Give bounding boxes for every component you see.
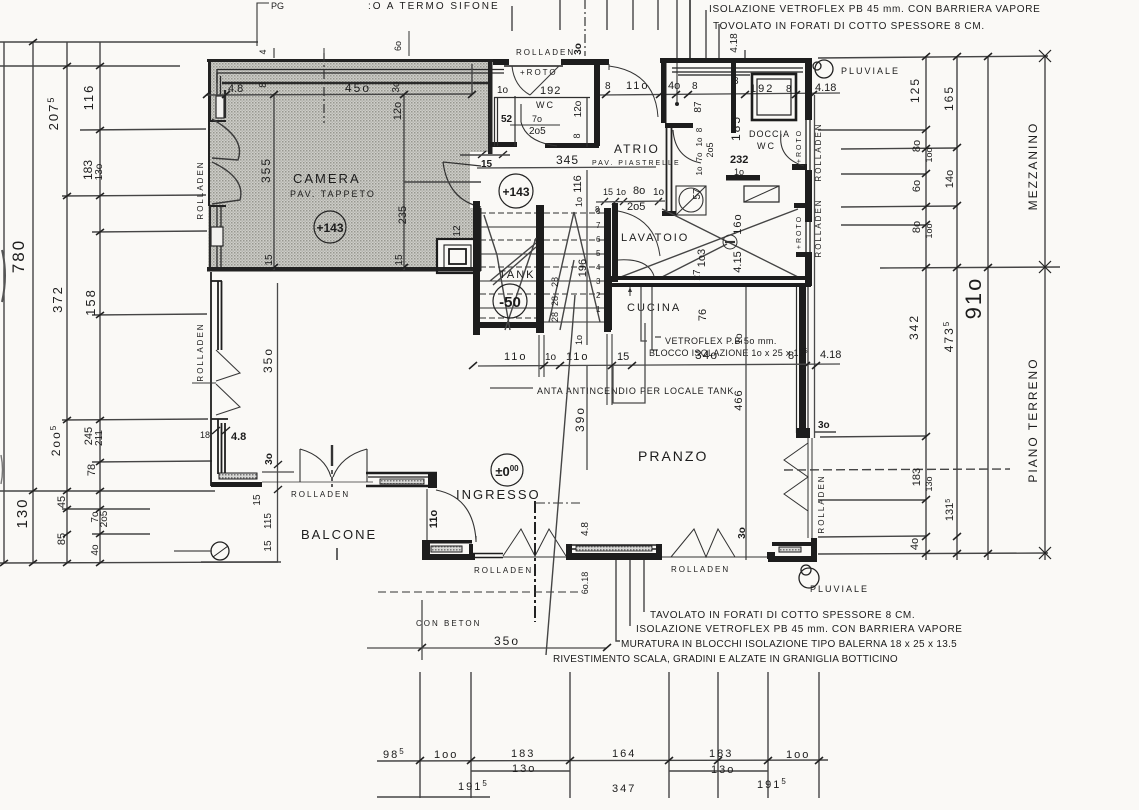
wall camera right lower — [477, 208, 482, 271]
connector right y225 — [841, 224, 926, 226]
svg-text:1o: 1o — [695, 137, 704, 146]
svg-text:14o: 14o — [944, 170, 956, 188]
connector y315 — [92, 314, 207, 315]
ticks camera dim — [203, 91, 476, 271]
RIGHT_DIMS — [784, 56, 1060, 560]
svg-text:1oo: 1oo — [924, 223, 934, 238]
svg-text:183: 183 — [911, 468, 923, 486]
wall pranzo south-west — [566, 544, 662, 560]
dim line R4 — [1044, 56, 1046, 560]
svg-text:CON BETON: CON BETON — [416, 619, 481, 628]
svg-text:BALCONE: BALCONE — [301, 527, 377, 542]
connector right y207 — [841, 206, 957, 207]
wall right below window — [805, 170, 812, 212]
svg-text:3o: 3o — [391, 81, 402, 93]
svg-text:57: 57 — [692, 188, 703, 200]
stair wall extension lines — [539, 334, 612, 405]
svg-text:8: 8 — [572, 133, 582, 138]
window sliver white left lower — [211, 227, 223, 246]
wall block bottom — [726, 164, 807, 181]
svg-text:7o: 7o — [695, 152, 704, 161]
svg-text:1315: 1315 — [944, 499, 956, 521]
dim line L3 — [99, 42, 101, 563]
svg-text:8: 8 — [258, 82, 269, 88]
window zigzag ingresso-pranzo — [503, 529, 566, 557]
wall atrio right cap — [665, 123, 693, 128]
svg-text:39o: 39o — [573, 406, 587, 432]
svg-text:ROLLADEN: ROLLADEN — [814, 122, 823, 181]
wall lobby-doccia partition — [731, 63, 736, 133]
svg-text:12: 12 — [452, 225, 463, 237]
svg-text:4.8: 4.8 — [231, 431, 246, 443]
connector right y536 — [818, 536, 926, 537]
wall lavatoio right stubs — [794, 203, 812, 286]
svg-text:1o: 1o — [695, 166, 704, 175]
svg-text:4o: 4o — [90, 544, 101, 556]
pluviale circle balcone — [211, 542, 229, 560]
svg-text:13o: 13o — [512, 763, 536, 775]
window casement arcs camera left — [212, 119, 241, 204]
svg-text:16o: 16o — [732, 213, 744, 234]
window WC top sill — [504, 65, 563, 67]
svg-text:±000: ±000 — [495, 464, 519, 479]
svg-text:RIVESTIMENTO SCALA, GRADINI: RIVESTIMENTO SCALA, GRADINI E ALZATE IN … — [553, 654, 898, 665]
svg-text:ATRIO: ATRIO — [614, 142, 660, 156]
window zigzag balcone left wall — [192, 350, 240, 415]
svg-text:1915: 1915 — [458, 779, 489, 793]
svg-text:ROLLADEN: ROLLADEN — [814, 198, 823, 257]
svg-text:345: 345 — [556, 153, 579, 167]
svg-text:1o: 1o — [616, 187, 626, 197]
ticks right — [922, 53, 992, 557]
connector right y57 — [818, 56, 1048, 58]
leader tavolato — [643, 560, 645, 612]
scan artifact left edge curve — [2, 250, 5, 302]
svg-text:1o: 1o — [574, 197, 584, 207]
stair treads left flight — [480, 213, 536, 318]
svg-text:1o: 1o — [497, 85, 509, 96]
svg-text:2: 2 — [596, 291, 601, 300]
svg-text:2oo5: 2oo5 — [49, 424, 63, 456]
svg-text:13o: 13o — [711, 764, 735, 776]
dim line R1 — [925, 56, 927, 560]
door arc camera east — [443, 162, 481, 207]
connector y130 — [80, 129, 206, 130]
svg-text:ROLLADEN: ROLLADEN — [291, 490, 350, 499]
svg-text:5: 5 — [596, 249, 601, 258]
wall cucina top double — [612, 276, 811, 287]
dash-dot vertical section line — [534, 501, 536, 622]
svg-text:116: 116 — [81, 84, 96, 111]
svg-text:+143: +143 — [502, 185, 529, 199]
door arc doccia — [781, 134, 804, 166]
wall stair bottom left — [473, 322, 544, 328]
tick balcone 4.8 — [212, 427, 282, 493]
wall camera left lower lines — [210, 206, 221, 268]
dim line L0 — [3, 42, 5, 563]
connector right y553 — [818, 553, 1048, 554]
svg-text:PIANO TERRENO: PIANO TERRENO — [1026, 357, 1040, 482]
svg-text:183: 183 — [81, 160, 95, 180]
svg-text:ROLLADEN: ROLLADEN — [516, 48, 575, 57]
wall mid-top over WC and atrio — [493, 59, 609, 65]
svg-text:PLUVIALE: PLUVIALE — [841, 66, 900, 76]
svg-text:4735: 4735 — [942, 320, 956, 352]
svg-text:15: 15 — [617, 351, 629, 363]
leader isolazione — [629, 560, 631, 626]
dim line R3 — [987, 56, 989, 560]
level circle +143 camera — [314, 211, 346, 243]
dim vertical x742 line — [745, 287, 747, 560]
svg-text:11o: 11o — [504, 351, 528, 363]
svg-text:PAV. TAPPETO: PAV. TAPPETO — [290, 189, 376, 199]
connector right y149 — [841, 148, 957, 149]
svg-text:8o: 8o — [911, 140, 923, 152]
wall right upper — [805, 58, 812, 120]
svg-text:183: 183 — [511, 748, 535, 760]
connector right y130 — [818, 129, 926, 131]
svg-text:ROLLADEN: ROLLADEN — [817, 474, 826, 533]
svg-text:45o: 45o — [345, 81, 371, 95]
svg-text:466: 466 — [733, 389, 745, 410]
window sliver white left upper — [216, 96, 224, 118]
svg-text:4.18: 4.18 — [820, 349, 841, 361]
svg-text:-50: -50 — [499, 294, 521, 311]
svg-text:8: 8 — [595, 205, 600, 214]
svg-text:76: 76 — [697, 309, 709, 321]
centerline dash-dot top — [584, 0, 586, 56]
connector right y500 — [818, 499, 926, 501]
svg-text:8o: 8o — [911, 221, 923, 233]
stair arrow right V — [549, 212, 600, 330]
svg-text:ROLLADEN: ROLLADEN — [671, 565, 730, 574]
svg-text:34o: 34o — [695, 348, 718, 362]
svg-text:15: 15 — [264, 254, 275, 266]
svg-text:4.18: 4.18 — [815, 82, 836, 94]
svg-text:3o: 3o — [264, 453, 275, 465]
shower stall doccia — [752, 74, 796, 120]
svg-text:2o5: 2o5 — [705, 142, 715, 157]
svg-text:1oo: 1oo — [434, 749, 458, 761]
pluviale circle bottom — [799, 568, 819, 588]
svg-text:ROLLADEN: ROLLADEN — [474, 566, 533, 575]
window top lobby sill — [672, 68, 803, 75]
lavatoio door arc top-left — [618, 211, 660, 256]
tread numbers — [596, 207, 601, 314]
wall left of camera lower run — [211, 272, 228, 486]
svg-text:DOCCIA: DOCCIA — [749, 129, 790, 139]
svg-text:MEZZANINO: MEZZANINO — [1026, 122, 1040, 211]
connector y462 — [92, 461, 212, 462]
svg-text:MURATURA IN BLOCCHI ISOLAZION: MURATURA IN BLOCCHI ISOLAZIONE TIPO BALE… — [621, 639, 957, 650]
extension lines above building — [512, 0, 745, 62]
wall camera top outer line — [207, 59, 493, 62]
wall lavatoio left — [612, 203, 618, 282]
level circle +0.00 — [491, 454, 523, 486]
dashed connector y470 — [784, 469, 1010, 470]
tank niche white cutout — [437, 239, 477, 273]
svg-text:342: 342 — [907, 314, 921, 340]
svg-text:78: 78 — [86, 464, 98, 476]
wall WC bottom — [490, 142, 599, 148]
svg-text:232: 232 — [730, 154, 748, 166]
svg-text:ISOLAZIONE VETROFLEX PB 45 mm.: ISOLAZIONE VETROFLEX PB 45 mm. CON BARRI… — [709, 4, 1041, 15]
svg-text:115: 115 — [263, 513, 274, 529]
svg-text:4: 4 — [258, 49, 268, 54]
svg-text:35o: 35o — [261, 347, 275, 373]
svg-text:211: 211 — [94, 430, 105, 446]
svg-text:+ROTO: +ROTO — [796, 215, 803, 249]
svg-text:7: 7 — [596, 221, 601, 230]
connector y534 — [92, 533, 150, 535]
sill ingresso south — [431, 546, 462, 552]
svg-text:15: 15 — [263, 540, 274, 552]
svg-text:4.8: 4.8 — [580, 522, 591, 536]
connector y66 — [0, 65, 180, 67]
svg-text:15: 15 — [603, 187, 613, 197]
wall ingresso south L — [422, 540, 475, 560]
svg-text:116: 116 — [572, 175, 584, 193]
dim arrow wc — [510, 124, 560, 126]
door arc atrio top — [609, 64, 658, 117]
wall lobby left — [661, 58, 667, 123]
svg-text:158: 158 — [83, 288, 98, 316]
pluviale circle top — [815, 60, 833, 78]
wall camera top window tracks — [217, 69, 504, 83]
connector y491 — [0, 490, 215, 492]
svg-text:12o: 12o — [392, 102, 404, 120]
svg-text:1o3: 1o3 — [696, 249, 708, 267]
bottom partial line — [377, 796, 490, 798]
svg-text:+143: +143 — [316, 221, 343, 235]
wall pranzo right — [799, 287, 806, 433]
wall camera left outer line — [208, 59, 211, 121]
dim line 345 — [477, 167, 656, 168]
svg-text:1915: 1915 — [757, 777, 788, 791]
drain circle lavatoio — [723, 235, 737, 249]
dim vertical x587 lower — [586, 366, 588, 470]
svg-text:164: 164 — [612, 748, 636, 760]
connector y196 — [62, 195, 206, 196]
wall stair right — [604, 208, 611, 332]
ticks atrio dim — [602, 91, 817, 98]
wall WC right — [594, 62, 600, 146]
svg-text:4.15: 4.15 — [732, 251, 744, 272]
svg-text:INGRESSO: INGRESSO — [456, 487, 541, 502]
window arc wc — [512, 66, 559, 95]
dim small atrio-lavatoio — [601, 198, 662, 205]
window lavatoio right — [806, 222, 810, 252]
wall balcone corner L — [211, 482, 262, 487]
svg-text:2o5: 2o5 — [529, 126, 546, 137]
svg-text:85: 85 — [56, 533, 68, 545]
svg-text:35o: 35o — [494, 634, 520, 648]
svg-text:ROLLADEN: ROLLADEN — [196, 160, 205, 219]
svg-text:3o: 3o — [818, 420, 830, 431]
wall stair left — [473, 201, 480, 335]
dim line under stairs y365 — [478, 364, 840, 366]
svg-text:ISOLAZIONE VETROFLEX PB 45: ISOLAZIONE VETROFLEX PB 45 mm. CON BARRI… — [636, 624, 963, 635]
svg-text:6o: 6o — [393, 41, 403, 51]
WC niche lines — [494, 96, 590, 147]
wall camera left window tracks — [217, 73, 225, 118]
svg-text:6o: 6o — [911, 180, 923, 192]
svg-text:6: 6 — [596, 235, 601, 244]
svg-text:347: 347 — [612, 783, 636, 795]
svg-text:130: 130 — [14, 497, 31, 528]
svg-text:TAVOLATO IN FORATI DI COTTO S: TAVOLATO IN FORATI DI COTTO SPESSORE 8 C… — [650, 610, 915, 621]
svg-text:PG: PG — [271, 1, 284, 11]
door ingresso arc — [427, 489, 476, 542]
window lines pranzo south — [566, 545, 662, 551]
stair diagonal left — [484, 215, 536, 330]
wall camera bottom — [207, 267, 481, 272]
svg-text:CUCINA: CUCINA — [627, 302, 681, 314]
svg-text:2o5: 2o5 — [99, 510, 110, 527]
bottom main dim line — [377, 760, 828, 761]
svg-text:15: 15 — [394, 254, 405, 266]
svg-text:185: 185 — [729, 115, 743, 141]
wall left window opening edge — [209, 121, 226, 206]
svg-text:PRANZO: PRANZO — [638, 448, 708, 464]
svg-text:LAVATOIO: LAVATOIO — [621, 232, 689, 244]
svg-text:11o: 11o — [626, 80, 650, 92]
top centerline tick — [323, 48, 325, 56]
svg-text:183: 183 — [709, 748, 733, 760]
washing machine lavatoio — [676, 186, 706, 215]
svg-text:4o: 4o — [668, 80, 680, 92]
window zigzag pranzo south — [662, 529, 769, 557]
LEFT_DIMS — [0, 42, 278, 563]
svg-text:28: 28 — [550, 277, 560, 287]
door arc WC — [521, 104, 557, 146]
window ingresso west — [366, 473, 437, 486]
wall lobby block top — [660, 58, 812, 63]
svg-text:1o: 1o — [734, 167, 744, 177]
sill balcone corner — [219, 473, 257, 479]
dim line y472 stub — [262, 471, 294, 473]
connector y42 — [0, 41, 258, 43]
svg-text:13o: 13o — [94, 163, 105, 180]
svg-text:28: 28 — [550, 312, 560, 322]
balcone edge line — [201, 561, 281, 563]
leader VETROFLEX — [641, 287, 661, 350]
svg-text:3: 3 — [596, 277, 601, 286]
svg-text:45: 45 — [56, 496, 68, 508]
dash-dot horizontal stub — [535, 502, 580, 504]
svg-text:235: 235 — [397, 206, 409, 224]
dim 15 tick camera east — [478, 151, 507, 158]
svg-text:PLUVIALE: PLUVIALE — [810, 584, 869, 594]
bottom ticks — [416, 757, 823, 764]
svg-text:4.8: 4.8 — [228, 83, 243, 95]
svg-text:192: 192 — [540, 85, 561, 97]
connector right y268 — [880, 267, 1060, 268]
svg-text:8: 8 — [605, 81, 611, 92]
sill pranzo south-east — [779, 547, 801, 552]
svg-text:ROLLADEN: ROLLADEN — [196, 322, 205, 381]
connector y232 — [92, 231, 207, 232]
bottom dim verticals — [377, 672, 828, 798]
svg-text:2o5: 2o5 — [627, 201, 645, 213]
connector y563 — [0, 562, 278, 563]
connector y509 — [62, 508, 150, 510]
leader muratura — [616, 560, 620, 641]
svg-text:8: 8 — [692, 81, 698, 92]
ticks 350 — [418, 644, 611, 651]
dim line L1 — [32, 42, 34, 563]
centerline dash-dot camera — [323, 53, 325, 123]
svg-text:TANK: TANK — [499, 269, 536, 281]
svg-text:+ROTO: +ROTO — [796, 129, 803, 163]
tank niche nested squares — [437, 239, 477, 273]
svg-text:2075: 2075 — [46, 96, 61, 131]
wall atrio right lower — [667, 128, 672, 216]
bottom secondary segs — [471, 770, 570, 772]
svg-text:1o: 1o — [653, 187, 665, 198]
dim line atrio top — [600, 93, 840, 95]
door arc lobby bottom — [673, 130, 701, 163]
svg-text:192: 192 — [750, 83, 774, 95]
svg-text:1o: 1o — [545, 352, 557, 363]
level circle +143 stairs — [499, 174, 533, 208]
connector right y436 — [820, 436, 926, 437]
svg-text:355: 355 — [259, 157, 273, 183]
wall lavatoio top stub — [662, 211, 676, 216]
connector y420 — [62, 419, 208, 420]
PG bracket — [257, 3, 274, 58]
svg-text:780: 780 — [9, 239, 28, 273]
svg-text:TOVOLATO IN FORATI DI COTTO SP: TOVOLATO IN FORATI DI COTTO SPESSORE 8 C… — [713, 21, 985, 32]
svg-text:4: 4 — [596, 263, 601, 272]
dim line L2 — [66, 42, 68, 563]
svg-text:8: 8 — [788, 350, 794, 362]
svg-text:7o: 7o — [532, 114, 542, 124]
washtub rect lavatoio — [744, 186, 779, 202]
svg-text:CAMERA: CAMERA — [293, 171, 361, 186]
svg-text:WC: WC — [757, 141, 776, 151]
svg-text:1: 1 — [596, 305, 601, 314]
svg-text:28: 28 — [550, 296, 560, 306]
window zigzag pranzo east — [784, 438, 812, 538]
svg-text:WC: WC — [536, 100, 555, 110]
dim vertical line stairs — [586, 170, 588, 345]
X cross lavatoio — [618, 209, 798, 278]
dashed line below balcone — [378, 591, 580, 593]
ticks y365 — [469, 362, 820, 369]
dim line camera top interior — [206, 64, 481, 270]
svg-text:91o: 91o — [961, 277, 986, 320]
balcone mark — [336, 548, 338, 560]
room CAMERA hatched floor — [208, 60, 492, 273]
thin wall to zigzag — [473, 554, 503, 558]
wall cucina left stub — [604, 276, 612, 330]
leader rivestimento diagonal — [546, 295, 575, 655]
svg-text:52: 52 — [501, 114, 513, 125]
wall pranzo south-east corner — [767, 538, 817, 562]
lavatoio basin curve — [618, 260, 654, 276]
tick marks left — [0, 39, 104, 566]
cucina counter arrow — [629, 287, 631, 296]
double door balcone — [262, 445, 373, 487]
svg-text:165: 165 — [942, 85, 956, 111]
svg-text:18: 18 — [200, 430, 210, 440]
svg-text:87: 87 — [693, 101, 704, 113]
level circle -50 — [493, 284, 527, 318]
stair treads right flight — [544, 213, 604, 322]
connector right y174 — [841, 173, 926, 175]
vertical stub 350 left — [421, 600, 423, 660]
